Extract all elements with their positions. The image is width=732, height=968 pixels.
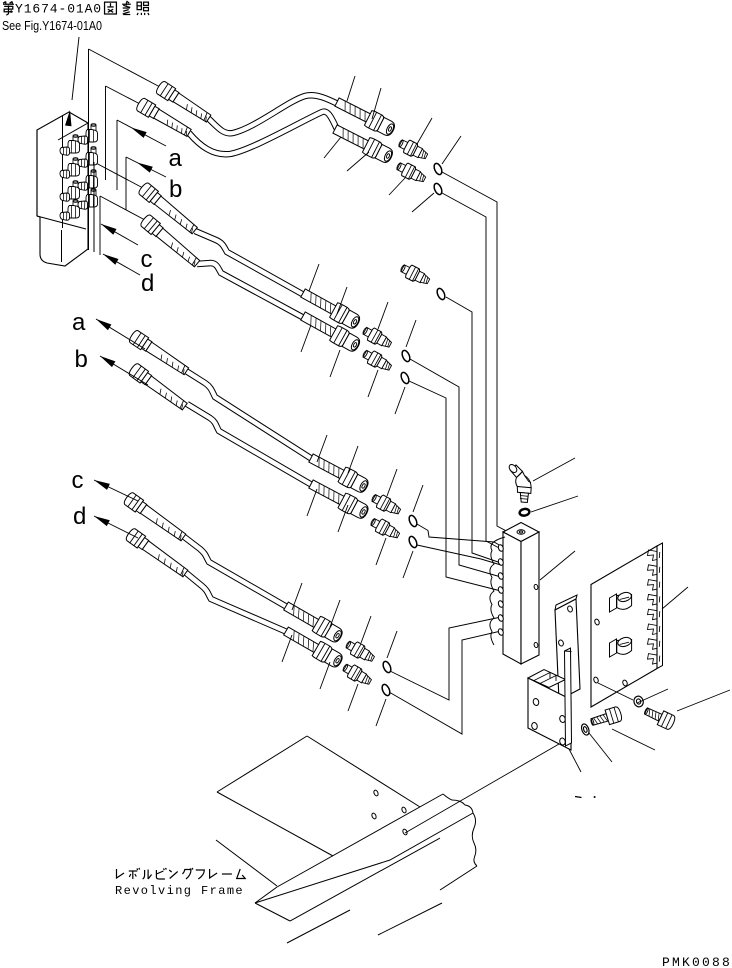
svg-text:PMK0088: PMK0088 <box>662 955 732 968</box>
svg-text:d: d <box>73 503 86 530</box>
svg-text:c: c <box>141 246 153 273</box>
svg-text:a: a <box>169 145 183 172</box>
svg-text:a: a <box>72 309 86 336</box>
svg-text:c: c <box>72 467 84 494</box>
svg-text:d: d <box>141 270 154 297</box>
svg-text:Revolving Frame: Revolving Frame <box>115 884 244 898</box>
svg-text:b: b <box>75 346 88 373</box>
svg-text:Y1674-01A0: Y1674-01A0 <box>15 2 102 17</box>
svg-text:b: b <box>169 176 182 203</box>
svg-text:See Fig.Y1674-01A0: See Fig.Y1674-01A0 <box>2 19 102 33</box>
